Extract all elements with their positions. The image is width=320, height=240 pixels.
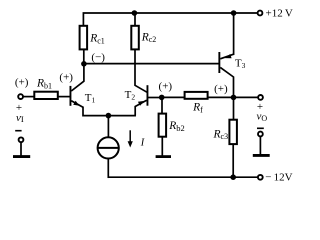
node emitter rail / current source: [106, 113, 112, 119]
wire Rc2 bottom lead to T2 collector: [135, 49, 147, 92]
ground input: [13, 155, 30, 158]
wire emitter rail T1-T2: [83, 107, 135, 115]
wire T2 base to node F: [148, 97, 161, 99]
terminal output vO: [258, 95, 263, 100]
wire output node to vO terminal: [234, 96, 258, 98]
wire Rb2 bottom lead to ground: [161, 137, 163, 156]
current source I: [98, 137, 119, 158]
svg-text:(−): (−): [91, 51, 105, 63]
node top rail / T3 collector: [231, 10, 237, 16]
resistor Rb2: [159, 114, 167, 137]
wire top rail +12V: [83, 13, 257, 26]
terminal input vI: [18, 94, 23, 99]
svg-text:(+): (+): [59, 72, 73, 84]
wire T1 base from input terminal to Rb1: [23, 96, 34, 98]
transistor T1: [70, 64, 84, 108]
wire Rf to output node: [209, 96, 234, 98]
ground output: [253, 154, 270, 157]
wire output ground stem: [259, 137, 261, 154]
current arrow I: [128, 130, 133, 147]
wire input ground stem: [20, 143, 22, 156]
svg-text:(+): (+): [159, 81, 173, 93]
wire current source top lead: [107, 116, 109, 138]
svg-text:(+): (+): [214, 83, 228, 95]
node A (Rc1 / T1 collector / T3 base): [81, 61, 87, 67]
label - polarity output: [257, 128, 264, 130]
wire Rc2 top lead: [134, 13, 136, 26]
terminal -12V: [258, 175, 263, 180]
transistor T3: [218, 52, 233, 97]
svg-text:+12 V: +12 V: [266, 7, 293, 19]
svg-text:Rb2: Rb2: [168, 120, 185, 133]
wire T3 collector vertical to top rail: [233, 13, 235, 54]
wire bottom rail -12V: [108, 176, 257, 178]
resistor Rc2: [131, 26, 139, 50]
resistor Rb1: [34, 92, 58, 99]
transistor T2: [135, 85, 148, 115]
svg-text:I: I: [140, 138, 145, 149]
ground Rb2: [156, 155, 171, 158]
wire Rc3 top lead: [233, 97, 235, 119]
terminal input ground side: [19, 137, 24, 142]
node output (T3 emitter / Rf / Rc3 / vO): [231, 95, 237, 101]
svg-text:− 12V: − 12V: [265, 172, 292, 184]
wire node F to Rf: [162, 96, 185, 98]
terminal output ground side: [258, 132, 263, 137]
terminal +12V: [258, 11, 263, 16]
wire base net y64 from Rc1/T1 collector node to T3 base: [84, 63, 219, 65]
wire Rc1 bottom lead: [83, 49, 85, 63]
node F (T2 base / Rf / Rb2): [159, 95, 165, 101]
resistor Rc1: [80, 26, 88, 50]
resistor Rf: [185, 92, 208, 99]
node top rail / Rc2: [132, 10, 138, 16]
node bottom rail / Rc3: [230, 174, 236, 180]
wire Rb1 to T1 base: [58, 96, 70, 98]
wire current source bottom lead to -12V rail: [107, 159, 109, 178]
resistor Rc3: [229, 120, 237, 144]
svg-text:vI: vI: [16, 112, 24, 124]
svg-text:(+): (+): [15, 76, 29, 88]
wire Rb2 top lead: [161, 97, 163, 113]
wire Rc3 bottom lead: [232, 144, 234, 177]
label - polarity input: [15, 130, 21, 132]
